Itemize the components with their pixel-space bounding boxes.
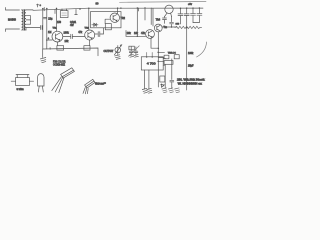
wire stub (75, 9, 78, 14)
ground (162, 88, 167, 93)
svg-text:MAINS: MAINS (8, 19, 16, 22)
ground (147, 88, 152, 93)
resistor R5 box (160, 76, 165, 82)
capacitor C8 (191, 8, 196, 22)
capacitor C2 plates (43, 17, 46, 18)
wire TR4 emitter (151, 38, 158, 48)
svg-text:TR4: TR4 (156, 19, 161, 22)
resistor RB box (164, 61, 173, 65)
ground (175, 88, 180, 93)
wire audio vertical (157, 32, 159, 87)
transistor pictorial TR pict1 (52, 68, 75, 93)
IF enclosure box (91, 12, 122, 28)
transistor TR1 (52, 31, 63, 42)
wire TR1 collector (56, 8, 58, 31)
svg-text:OUTPUT: OUTPUT (104, 50, 114, 53)
capacitor C13 (170, 17, 174, 28)
wire TR1 emitter (57, 42, 59, 46)
transformer T1 (6, 8, 41, 32)
transistor TR5 (165, 5, 173, 16)
capacitor pictorial C11 (38, 74, 44, 92)
wire TR4 base (126, 35, 146, 37)
svg-text:1M: 1M (48, 31, 51, 34)
wire bottom rail (43, 48, 98, 56)
ground (142, 88, 147, 93)
svg-text:22µ: 22µ (48, 18, 53, 21)
speaker curve (197, 42, 207, 57)
capacitor C12 (163, 16, 167, 23)
transistor TR4 (146, 30, 155, 39)
fuse symbol (36, 4, 38, 7)
wire box down (145, 70, 149, 89)
transformer T2 box (141, 57, 163, 70)
resistor R1 box (60, 11, 68, 18)
capacitor C6 (178, 8, 183, 24)
resistor R2 box (57, 46, 64, 50)
wire interstage (63, 35, 85, 37)
trimmer VC3 (134, 47, 139, 57)
wire stub (125, 31, 127, 37)
wire TR3 collector (117, 8, 119, 13)
transistor pictorial TR pict2 (83, 79, 95, 94)
ground (40, 49, 46, 63)
transistor TR2 (85, 30, 95, 40)
capacitor C1 (40, 26, 42, 30)
wire right rail (186, 16, 188, 90)
wire stub (54, 10, 56, 14)
svg-text:Tw.: Tw. (164, 26, 168, 29)
svg-text:u wfrm: u wfrm (17, 88, 24, 91)
node (79, 8, 81, 10)
diode D2 (160, 84, 164, 87)
capacitor C4 (98, 32, 100, 37)
wire top rail (33, 8, 203, 10)
wire TR2 collector (88, 8, 90, 30)
diode D1 (92, 23, 98, 26)
diagonal gang line (129, 46, 140, 57)
capacitor C9 (197, 8, 202, 23)
node (186, 27, 188, 29)
wire cluster (158, 52, 164, 61)
svg-text:Wxfr-xwt: Wxfr-xwt (95, 82, 104, 85)
svg-text:4 700: 4 700 (147, 62, 156, 66)
capacitor pictorial C10 (11, 75, 33, 86)
small box B1 (105, 24, 111, 30)
svg-text:CODES·SEE: CODES·SEE (53, 63, 65, 66)
wire stub (139, 8, 145, 20)
svg-text:150: 150 (57, 21, 62, 24)
resistor RA box (164, 55, 169, 59)
variable capacitor VC1 (114, 45, 121, 60)
resistor R6 box (84, 46, 90, 50)
wire TR2 out (95, 28, 104, 34)
wire upper supply rail (120, 1, 207, 4)
capacitor C5 vertical pair (151, 8, 153, 26)
svg-text:100k: 100k (64, 31, 70, 34)
svg-text:**: ** (104, 82, 106, 85)
transistor TR3 (110, 13, 119, 22)
resistor RC box (174, 55, 179, 59)
wire stub (170, 59, 174, 89)
wire stubs into T2 (147, 53, 153, 57)
svg-text:TR5.OC: TR5.OC (168, 53, 176, 55)
capacitor C3 (71, 34, 73, 38)
wire TR2 emitter (89, 40, 91, 46)
svg-text:TR2: TR2 (121, 17, 126, 20)
wire join (193, 22, 199, 24)
capacitor C7 (184, 8, 189, 15)
wire supply vertical A (42, 9, 44, 49)
wire supply vertical B (46, 9, 48, 49)
wire TR3 base (105, 19, 110, 23)
svg-text:W. NXNNWN ox: W. NXNNWN ox (178, 83, 203, 86)
resistor R3 zigzag (175, 26, 202, 28)
transistor TR4b (154, 24, 162, 32)
svg-text:100k: 100k (188, 52, 194, 55)
svg-text:2N. Wk.9kk Naek: 2N. Wk.9kk Naek (177, 79, 206, 82)
trimmer VC2 (129, 46, 134, 57)
wire vertical (164, 65, 166, 89)
wire box out (163, 59, 166, 66)
wire TR4b out (162, 26, 177, 28)
wire mid vertical (136, 8, 138, 36)
wire TR1 base (47, 39, 53, 41)
ground (168, 88, 173, 93)
svg-text:25µF: 25µF (188, 64, 194, 67)
